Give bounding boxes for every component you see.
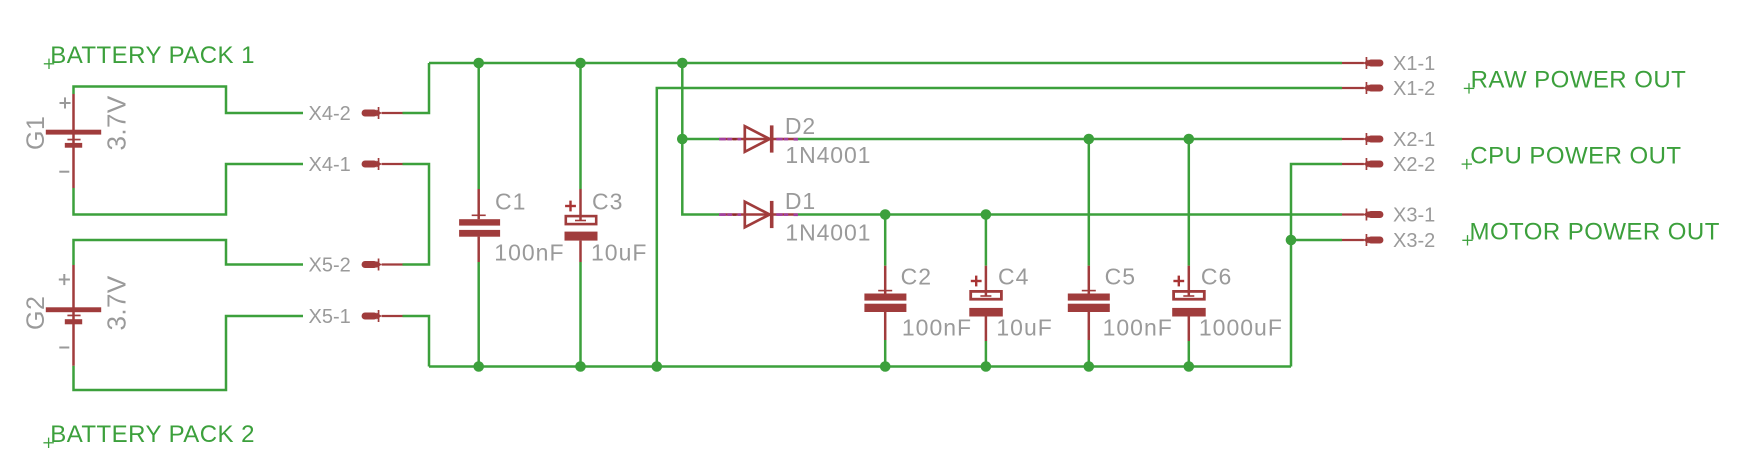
svg-text:10uF: 10uF	[996, 315, 1052, 341]
svg-text:1N4001: 1N4001	[785, 142, 871, 168]
junction bottom bus at C2	[880, 361, 891, 372]
svg-text:X3-1: X3-1	[1393, 205, 1435, 227]
junction bottom bus at C3	[575, 361, 586, 372]
wire battery1 plus to X4-2	[74, 87, 304, 114]
diode D2 pin name marks	[719, 138, 798, 141]
wire battery1 minus to X4-1	[74, 164, 304, 215]
svg-text:D1: D1	[785, 188, 816, 214]
battery G2	[46, 265, 101, 366]
diode D1 pin name marks	[719, 213, 798, 216]
diode D2	[721, 125, 798, 152]
svg-text:100nF: 100nF	[1103, 315, 1173, 341]
junction D1 line at C2	[880, 209, 891, 220]
svg-text:3.7V: 3.7V	[102, 275, 132, 330]
junction top bus at C1	[473, 58, 484, 69]
svg-text:1000uF: 1000uF	[1199, 315, 1283, 341]
svg-text:3.7V: 3.7V	[102, 95, 132, 150]
wire C5 bottom lead	[1088, 340, 1091, 367]
wire X5-1 to bottom bus	[403, 316, 430, 367]
wire C6 top lead	[1188, 139, 1191, 266]
svg-text:CPU POWER OUT: CPU POWER OUT	[1470, 142, 1681, 169]
wire D2 cathode to X2-1	[797, 138, 1342, 141]
svg-text:C4: C4	[998, 264, 1029, 290]
battery G2 plus sign	[59, 274, 70, 285]
svg-text:BATTERY PACK 1: BATTERY PACK 1	[50, 42, 255, 69]
pin X5-2	[362, 259, 403, 271]
junction D2 line at C5	[1084, 134, 1095, 145]
battery G1 plus sign	[60, 97, 71, 108]
svg-text:D2: D2	[785, 113, 816, 139]
wire X1-2 bus and riser	[657, 88, 1342, 367]
junction bottom bus at C4	[981, 361, 992, 372]
svg-text:C1: C1	[495, 189, 526, 215]
svg-text:X5-1: X5-1	[309, 306, 351, 328]
svg-text:10uF: 10uF	[591, 240, 647, 266]
wire battery2 minus to X5-1	[74, 316, 304, 390]
svg-text:X2-2: X2-2	[1393, 154, 1435, 176]
junction D1 line at C4	[981, 209, 992, 220]
pin X3-2	[1342, 234, 1383, 246]
svg-text:C5: C5	[1105, 264, 1136, 290]
svg-text:X2-1: X2-1	[1393, 129, 1435, 151]
svg-text:RAW POWER OUT: RAW POWER OUT	[1471, 67, 1687, 94]
capacitor C4 plus sign	[971, 276, 982, 287]
junction top bus at C3	[575, 58, 586, 69]
wire C3 top lead	[579, 63, 582, 189]
pin X1-1	[1342, 57, 1383, 69]
capacitor C5	[1068, 266, 1110, 340]
wire D2 anode stub	[682, 138, 720, 141]
capacitor C3 plus sign	[565, 201, 576, 212]
wire C5 top lead	[1088, 139, 1091, 266]
wire C6 bottom lead	[1188, 341, 1191, 367]
capacitor C1	[459, 189, 500, 262]
wire X2-2 to right vertical	[1291, 164, 1342, 367]
pin X2-2	[1342, 158, 1383, 170]
svg-text:100nF: 100nF	[902, 315, 972, 341]
svg-text:G2: G2	[22, 296, 50, 330]
svg-text:X1-2: X1-2	[1393, 78, 1435, 100]
node RAW POWER OUT origin cross	[1464, 83, 1474, 93]
capacitor C3	[565, 189, 598, 262]
svg-text:G1: G1	[22, 116, 50, 150]
node BATTERY PACK 1 origin cross	[44, 59, 54, 69]
svg-text:X1-1: X1-1	[1393, 53, 1435, 75]
svg-text:100nF: 100nF	[494, 240, 564, 266]
junction bottom bus at C5	[1084, 361, 1095, 372]
capacitor C6 plus sign	[1173, 276, 1184, 287]
wire C1 bottom lead	[477, 262, 480, 367]
svg-text:X4-2: X4-2	[309, 103, 351, 125]
pin X5-1	[362, 310, 403, 322]
node BATTERY PACK 2 origin cross	[43, 438, 53, 448]
wire D1 cathode to X3-1	[797, 213, 1342, 216]
wire C2 bottom lead	[884, 340, 887, 367]
svg-text:X3-2: X3-2	[1393, 230, 1435, 252]
wire C4 top lead	[985, 215, 988, 266]
junction D2 line at C6	[1184, 134, 1195, 145]
wire battery2 plus to X5-2	[74, 240, 304, 265]
svg-text:X5-2: X5-2	[309, 255, 351, 277]
capacitor C2	[864, 266, 906, 340]
svg-text:1N4001: 1N4001	[785, 220, 871, 246]
pin X4-2	[362, 107, 403, 119]
svg-text:C2: C2	[901, 264, 932, 290]
junction D2 line at riser	[677, 134, 688, 145]
svg-text:X4-1: X4-1	[309, 154, 351, 176]
junction X3-2 at right vertical	[1286, 235, 1297, 246]
capacitor C6	[1172, 266, 1206, 341]
capacitor C4	[969, 266, 1003, 341]
junction top bus at diode riser	[677, 58, 688, 69]
wire C2 top lead	[884, 215, 887, 266]
node CPU POWER OUT origin cross	[1462, 159, 1472, 169]
battery G2 minus sign	[59, 347, 69, 349]
node MOTOR POWER OUT origin cross	[1462, 235, 1472, 245]
diode D1	[721, 201, 798, 228]
svg-text:BATTERY PACK 2: BATTERY PACK 2	[50, 421, 255, 448]
wire C1 top lead	[477, 63, 480, 189]
wire C3 bottom lead	[579, 262, 582, 367]
wire top bus RAW+	[429, 62, 1342, 65]
wire C4 bottom lead	[985, 341, 988, 367]
wire X4-2 to top bus riser	[403, 63, 430, 113]
junction bottom bus at C6	[1184, 361, 1195, 372]
battery G1 minus sign	[59, 171, 69, 173]
pin X4-1	[362, 158, 403, 170]
pin X2-1	[1342, 133, 1383, 145]
wire X3-2 stub	[1291, 239, 1342, 242]
svg-text:C3: C3	[592, 189, 623, 215]
pin X1-2	[1342, 82, 1383, 94]
wire X4-1 to X5-2 series link	[403, 164, 430, 265]
battery G1	[46, 94, 101, 188]
svg-text:C6: C6	[1201, 264, 1232, 290]
pin X3-1	[1342, 209, 1383, 221]
svg-text:MOTOR POWER OUT: MOTOR POWER OUT	[1470, 219, 1720, 246]
junction bottom bus at X1-2 riser	[652, 361, 663, 372]
wire diode anode riser	[682, 63, 720, 215]
junction bottom bus at C1	[473, 361, 484, 372]
wire bottom bus GND	[429, 365, 1291, 368]
